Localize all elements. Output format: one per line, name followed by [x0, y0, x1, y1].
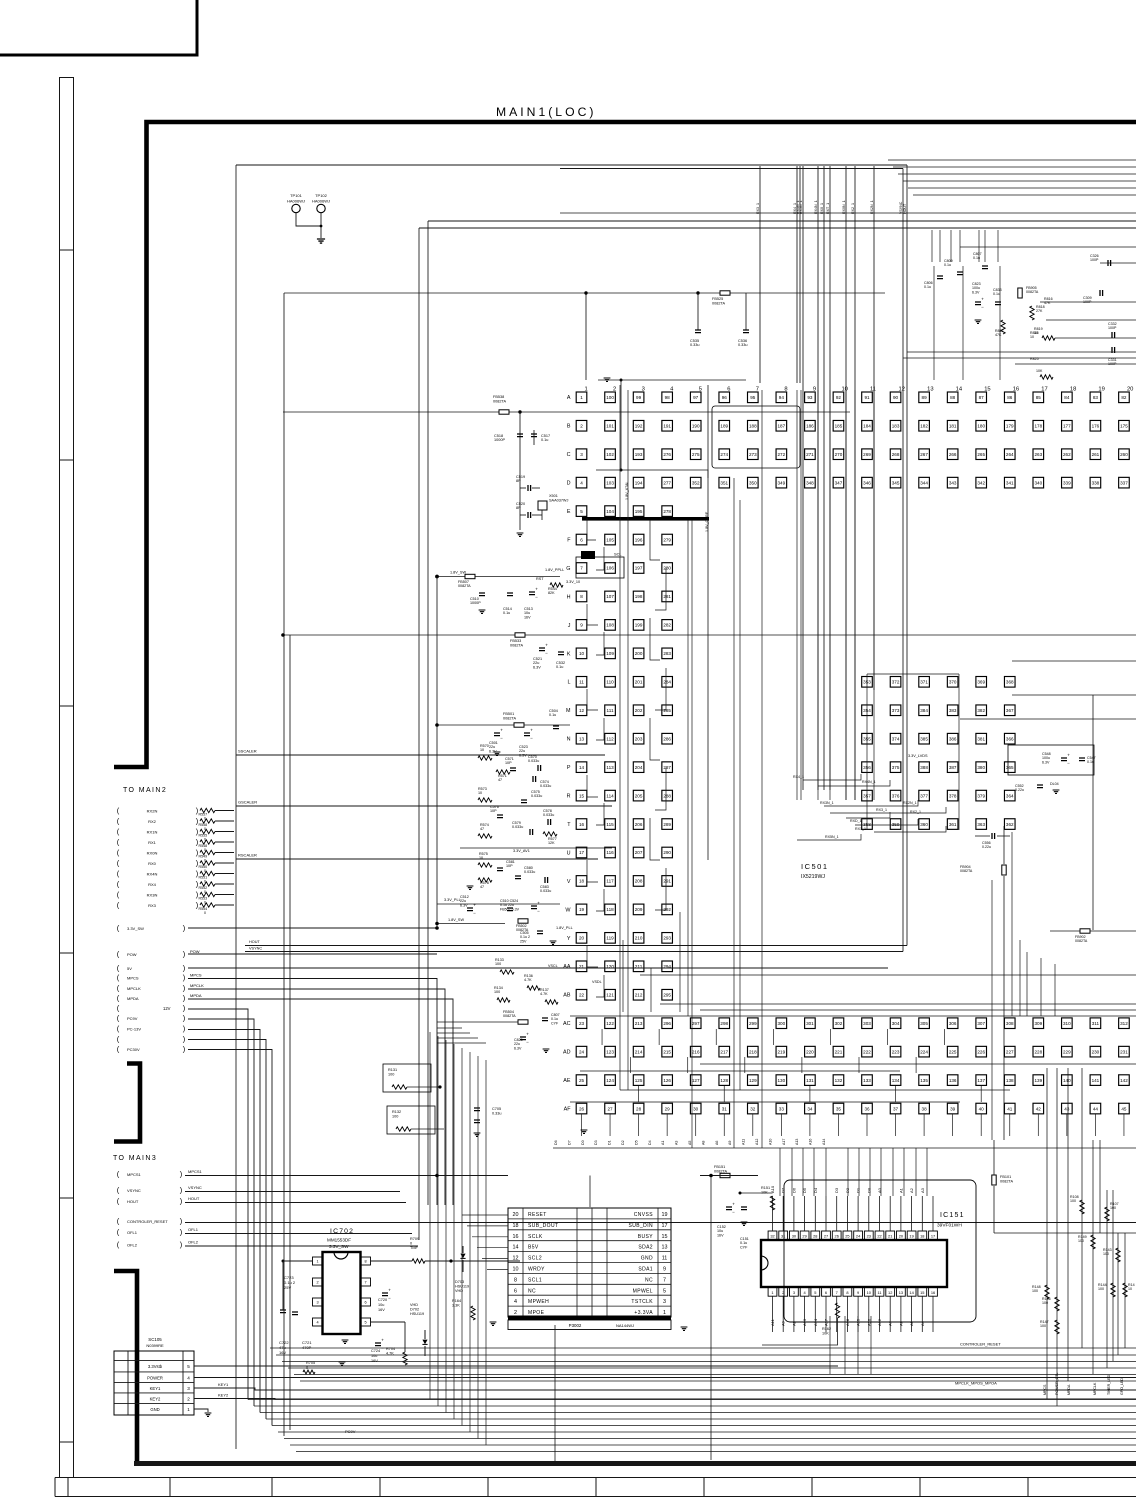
svg-text:RX4: RX4 — [148, 882, 157, 887]
pad B19 — [1090, 420, 1101, 431]
svg-text:0.1u: 0.1u — [993, 292, 1000, 296]
svg-text:NC: NC — [645, 1277, 653, 1283]
wire vertical net RX4_1 — [796, 166, 798, 383]
svg-text:22: 22 — [579, 992, 585, 997]
svg-text:0.033u: 0.033u — [528, 759, 539, 763]
wire — [740, 1192, 773, 1194]
svg-text:P: P — [567, 765, 571, 771]
svg-text:D3: D3 — [594, 1140, 598, 1145]
svg-text:−: − — [545, 651, 548, 656]
svg-text:470P: 470P — [302, 1345, 312, 1350]
wire — [903, 357, 1136, 359]
diode D703 HSU119 VHD — [460, 1254, 465, 1259]
bottom bus lines — [248, 1399, 1136, 1401]
pad AE16 — [1004, 1075, 1015, 1086]
ground — [1053, 790, 1060, 793]
svg-text:350: 350 — [749, 480, 757, 485]
pad L1 — [576, 677, 587, 688]
pad AC20 — [1119, 1018, 1130, 1029]
svg-text:303: 303 — [863, 1021, 871, 1026]
pad E4 — [662, 506, 673, 517]
IC151 pin 13 — [897, 1287, 906, 1296]
svg-text:214: 214 — [635, 1049, 643, 1054]
pad AE3 — [633, 1075, 644, 1086]
pad A10 — [833, 392, 844, 403]
svg-text:RSCALER: RSCALER — [238, 853, 257, 858]
svg-text:100P: 100P — [1108, 326, 1117, 330]
svg-text:5V: 5V — [127, 966, 132, 971]
wire IC151 bottom stub — [825, 1296, 827, 1332]
svg-text:177: 177 — [1063, 423, 1071, 428]
svg-text:D1: D1 — [608, 1140, 612, 1145]
svg-text:368: 368 — [1006, 680, 1014, 685]
wire — [1012, 660, 1136, 662]
wire bus under grid 2 — [620, 1089, 1010, 1091]
IC151 pin 30 — [790, 1231, 799, 1240]
svg-text:AB: AB — [563, 993, 571, 999]
ground — [741, 1222, 748, 1225]
svg-text:20: 20 — [513, 1212, 519, 1218]
pad D6 — [719, 477, 730, 488]
board outline MAIN1 thick frame — [114, 122, 1136, 767]
svg-text:RST: RST — [536, 577, 544, 581]
svg-text:1: 1 — [771, 1290, 773, 1295]
wire — [554, 1325, 556, 1463]
svg-text:R709: R709 — [410, 1237, 419, 1241]
svg-text:263: 263 — [1034, 452, 1042, 457]
svg-text:352: 352 — [692, 480, 700, 485]
wire 1.8V_SW — [437, 576, 560, 578]
svg-text:+: + — [535, 587, 538, 592]
svg-text:179: 179 — [1006, 423, 1014, 428]
svg-text:38: 38 — [922, 1106, 928, 1111]
wire SSCALER — [236, 754, 605, 756]
ferrite bead FB904 0082TA — [1002, 865, 1006, 875]
svg-text:7: 7 — [663, 1277, 666, 1283]
svg-text:13: 13 — [899, 1290, 903, 1295]
svg-text:RX2N: RX2N — [147, 809, 158, 814]
pad T2 — [605, 819, 616, 830]
wire — [215, 904, 234, 906]
pad D8 — [776, 477, 787, 488]
svg-text:33: 33 — [779, 1106, 785, 1111]
wire vertical x734 — [733, 478, 735, 1148]
svg-text:0082TA: 0082TA — [1000, 1179, 1013, 1183]
pad AC6 — [719, 1018, 730, 1029]
svg-text:212: 212 — [635, 992, 643, 997]
svg-text:88: 88 — [950, 395, 956, 400]
svg-text:311: 311 — [1092, 1021, 1100, 1026]
junction — [435, 922, 439, 926]
wire — [215, 894, 234, 896]
pad AE1 — [576, 1075, 587, 1086]
wire rails between AB and AC rows — [640, 974, 1136, 976]
svg-text:10: 10 — [513, 1267, 519, 1273]
svg-text:C: C — [567, 452, 571, 458]
svg-text:19: 19 — [662, 1212, 668, 1218]
svg-text:17: 17 — [931, 1234, 935, 1239]
svg-text:3: 3 — [793, 1290, 795, 1295]
capacitor C807 0.1u CYF — [542, 1018, 548, 1021]
pad L15 — [976, 677, 987, 688]
IC702 pin 7 — [361, 1278, 371, 1286]
wire loop pads B6-C7 — [712, 406, 800, 468]
svg-text:3.3V_AV1: 3.3V_AV1 — [513, 849, 530, 853]
pad AC12 — [890, 1018, 901, 1029]
wire vertical x620 — [619, 385, 621, 1090]
svg-text:337: 337 — [1120, 480, 1128, 485]
svg-text:194: 194 — [635, 480, 643, 485]
pad E3 — [633, 506, 644, 517]
svg-text:363: 363 — [977, 822, 985, 827]
wire — [975, 835, 990, 837]
pad AE5 — [690, 1075, 701, 1086]
pad C5 — [690, 449, 701, 460]
wire — [585, 293, 587, 380]
wire — [1092, 695, 1094, 930]
border tick — [60, 1441, 74, 1443]
IC151 pin 2 — [779, 1287, 788, 1296]
svg-text:185: 185 — [835, 423, 843, 428]
svg-text:A1: A1 — [898, 1187, 903, 1193]
pad W4 — [662, 904, 673, 915]
svg-text:119: 119 — [606, 936, 614, 941]
pad A12 — [890, 392, 901, 403]
svg-text:+: + — [500, 728, 503, 733]
ruler tick — [271, 1478, 273, 1497]
left vertical bus x428 — [427, 221, 429, 1205]
svg-text:5: 5 — [364, 1321, 366, 1325]
pad AF1 — [576, 1103, 587, 1114]
SC105 pin 4 POWER — [114, 1371, 194, 1373]
wire — [1015, 363, 1136, 365]
wire IC151 top stub — [889, 1196, 891, 1231]
capacitor C521 22u 6.3V — [539, 648, 545, 651]
svg-text:372: 372 — [892, 680, 900, 685]
svg-text:309: 309 — [1034, 1021, 1042, 1026]
svg-text:POWER: POWER — [147, 1375, 163, 1380]
svg-text:0082TA: 0082TA — [510, 643, 523, 647]
pad D4 — [662, 477, 673, 488]
IC151 pin 8 — [843, 1287, 852, 1296]
pad R11 — [862, 790, 873, 801]
svg-text:223: 223 — [892, 1049, 900, 1054]
resistor R544 82K — [550, 583, 563, 587]
svg-text:POW: POW — [127, 952, 137, 957]
junction — [518, 410, 521, 413]
ferrite bead FB905 0082TA — [1018, 288, 1022, 298]
svg-text:204: 204 — [635, 765, 643, 770]
pad M3 — [633, 705, 644, 716]
svg-text:A9: A9 — [781, 1320, 786, 1326]
pad J3 — [633, 620, 644, 631]
svg-text:D0: D0 — [581, 1140, 585, 1145]
svg-text:189: 189 — [720, 423, 728, 428]
svg-text:47: 47 — [480, 885, 484, 889]
wire — [655, 568, 666, 610]
border tick — [60, 705, 74, 707]
svg-text:RX0N_1: RX0N_1 — [842, 200, 846, 214]
svg-text:12V: 12V — [163, 1006, 171, 1011]
pad B15 — [976, 420, 987, 431]
wire IC151 top stub — [804, 1196, 806, 1231]
svg-text:10: 10 — [1030, 335, 1034, 339]
svg-text:296: 296 — [663, 1021, 671, 1026]
svg-text:44: 44 — [1093, 1106, 1099, 1111]
pad T1 — [576, 819, 587, 830]
border tick — [60, 952, 74, 954]
wire — [371, 1260, 413, 1262]
pad A16 — [1004, 392, 1015, 403]
svg-text:HOUT: HOUT — [188, 1196, 200, 1201]
svg-text:MPCS1: MPCS1 — [188, 1169, 203, 1174]
svg-text:186: 186 — [806, 423, 814, 428]
pad AE2 — [605, 1075, 616, 1086]
wire IC151 bottom stub — [846, 1296, 848, 1332]
svg-text:SUB_DIN: SUB_DIN — [629, 1223, 653, 1229]
pad V4 — [662, 876, 673, 887]
svg-text:96: 96 — [722, 395, 728, 400]
svg-text:42: 42 — [1036, 1106, 1042, 1111]
wire vertical net RX1N_1 — [799, 166, 801, 383]
wire — [745, 293, 747, 330]
wire IC151 bottom stub — [804, 1296, 806, 1332]
svg-text:47: 47 — [480, 827, 484, 831]
svg-text:5: 5 — [663, 1288, 666, 1294]
pad P1 — [576, 762, 587, 773]
svg-text:288: 288 — [663, 793, 671, 798]
pad AB3 — [633, 989, 644, 1000]
svg-text:206: 206 — [635, 822, 643, 827]
pad C13 — [919, 449, 930, 460]
wire IC151 top stub — [846, 1196, 848, 1231]
pad AC16 — [1004, 1018, 1015, 1029]
pad N14 — [947, 733, 958, 744]
svg-text:C705: C705 — [492, 1107, 501, 1111]
IC151 pin 20 — [897, 1231, 906, 1240]
svg-text:210: 210 — [635, 936, 643, 941]
svg-text:RX0N: RX0N — [147, 851, 158, 856]
svg-text:10P: 10P — [506, 864, 513, 868]
svg-text:386: 386 — [949, 736, 957, 741]
svg-text:100: 100 — [495, 962, 501, 966]
svg-text:100: 100 — [388, 1072, 394, 1076]
capacitor C501 22u 6.3V — [494, 733, 500, 736]
pad M1 — [576, 705, 587, 716]
svg-text:284: 284 — [663, 680, 671, 685]
pad G3 — [633, 563, 644, 574]
pad N2 — [605, 733, 616, 744]
svg-text:131: 131 — [806, 1078, 814, 1083]
svg-text:0082TA: 0082TA — [503, 716, 516, 720]
pad AE7 — [748, 1075, 759, 1086]
svg-text:10u: 10u — [378, 1303, 384, 1307]
IC151 pin 24 — [854, 1231, 863, 1240]
ground — [339, 1362, 346, 1365]
capacitor C724 10u 16V — [375, 1343, 381, 1346]
svg-text:17: 17 — [662, 1223, 668, 1229]
junction — [435, 1174, 439, 1178]
svg-text:CONTROLER_RESET: CONTROLER_RESET — [960, 1342, 1001, 1347]
pad A11 — [862, 392, 873, 403]
wire — [520, 487, 526, 489]
pad D16 — [1004, 477, 1015, 488]
svg-text:WRDY: WRDY — [528, 1267, 545, 1273]
svg-text:268: 268 — [892, 452, 900, 457]
wire — [437, 1021, 518, 1023]
wire — [596, 889, 604, 911]
svg-text:TP102: TP102 — [315, 193, 328, 198]
svg-text:100: 100 — [606, 395, 614, 400]
svg-text:200: 200 — [635, 651, 643, 656]
svg-text:IC151: IC151 — [940, 1212, 965, 1219]
pad J4 — [662, 620, 673, 631]
pad AF13 — [919, 1103, 930, 1114]
wire — [1040, 301, 1136, 303]
junction — [449, 1259, 452, 1262]
svg-text:TP101: TP101 — [290, 193, 303, 198]
svg-text:17: 17 — [579, 850, 585, 855]
pad H2 — [605, 591, 616, 602]
pad AF6 — [719, 1103, 730, 1114]
pad Y1 — [576, 933, 587, 944]
svg-text:23: 23 — [867, 1234, 871, 1239]
svg-text:0.33u: 0.33u — [738, 343, 748, 347]
svg-text:2: 2 — [580, 423, 583, 428]
svg-text:127: 127 — [692, 1078, 700, 1083]
wire horizontal y213 — [560, 212, 1136, 214]
svg-text:6.3V: 6.3V — [519, 753, 527, 757]
pad AF18 — [1062, 1103, 1073, 1114]
capacitor C512 22u 6.3V — [467, 908, 473, 911]
svg-text:TIMER_LED: TIMER_LED — [1107, 1374, 1111, 1395]
capacitor C510 1000P — [479, 593, 485, 596]
wire — [215, 862, 234, 864]
svg-text:41: 41 — [1007, 1106, 1013, 1111]
pad N15 — [976, 733, 987, 744]
svg-text:278: 278 — [663, 509, 671, 514]
svg-text:45: 45 — [1121, 1106, 1127, 1111]
wire OFL2 — [185, 1245, 418, 1247]
wire 3.3V_SW — [188, 927, 437, 929]
svg-text:10P: 10P — [505, 761, 512, 765]
pad D5 — [690, 477, 701, 488]
pad C12 — [890, 449, 901, 460]
resistor R145 100 — [1123, 1283, 1127, 1297]
svg-text:192: 192 — [635, 423, 643, 428]
svg-text:6.3V: 6.3V — [972, 290, 980, 294]
IC151 pin 10 — [864, 1287, 873, 1296]
wire — [404, 1322, 406, 1352]
wire vertical net RX3N_1 — [802, 166, 804, 790]
pad AD10 — [833, 1046, 844, 1057]
svg-text:10K: 10K — [1036, 369, 1043, 373]
svg-text:85: 85 — [1036, 395, 1042, 400]
pad C7 — [748, 449, 759, 460]
pad B4 — [662, 420, 673, 431]
svg-text:27: 27 — [824, 1234, 828, 1239]
left vertical bus x284 — [283, 293, 285, 1436]
pad AE14 — [947, 1075, 958, 1086]
pad AC9 — [805, 1018, 816, 1029]
wire IC151 top stub — [825, 1196, 827, 1231]
svg-text:G: G — [566, 566, 570, 572]
svg-text:+: + — [530, 728, 533, 733]
wire IC151 top stub — [932, 1196, 934, 1231]
svg-text:R: R — [567, 794, 571, 800]
svg-text:126: 126 — [663, 1078, 671, 1083]
pad C4 — [662, 449, 673, 460]
pad A17 — [1033, 392, 1044, 403]
wire — [620, 380, 622, 470]
svg-text:362: 362 — [1006, 822, 1014, 827]
pad K4 — [662, 648, 673, 659]
svg-text:291: 291 — [663, 879, 671, 884]
pad D7 — [748, 477, 759, 488]
IC151 pin 1 — [768, 1287, 777, 1296]
svg-text:198: 198 — [635, 594, 643, 599]
svg-text:U: U — [567, 850, 571, 856]
svg-text:0.033u: 0.033u — [524, 870, 535, 874]
svg-text:MPDA: MPDA — [127, 996, 139, 1001]
wire — [436, 577, 438, 929]
svg-text:47: 47 — [498, 778, 502, 782]
svg-text:TO MAIN2: TO MAIN2 — [123, 787, 167, 794]
junction — [320, 225, 323, 228]
svg-text:275: 275 — [692, 452, 700, 457]
pad AA2 — [605, 961, 616, 972]
svg-text:RX1: RX1 — [148, 840, 157, 845]
svg-text:112: 112 — [606, 736, 614, 741]
pad AF14 — [947, 1103, 958, 1114]
svg-text:KEY2: KEY2 — [150, 1396, 161, 1401]
ground — [581, 1130, 588, 1133]
capacitor C510b 0.1u — [507, 908, 513, 911]
svg-text:OFL2: OFL2 — [188, 1240, 199, 1245]
svg-text:343: 343 — [949, 480, 957, 485]
IC151 pin 17 — [929, 1231, 938, 1240]
capacitor C505 0.1u 25V — [537, 931, 543, 934]
svg-text:KEY2: KEY2 — [218, 1393, 229, 1398]
pad AC15 — [976, 1018, 987, 1029]
pad B5 — [690, 420, 701, 431]
svg-text:175: 175 — [1120, 423, 1128, 428]
pad L12 — [890, 677, 901, 688]
svg-text:6: 6 — [825, 1290, 827, 1295]
svg-text:D2: D2 — [845, 1187, 850, 1193]
svg-text:7: 7 — [364, 1281, 366, 1285]
wire — [215, 820, 234, 822]
wire vertical net RX2_1 — [854, 166, 856, 800]
wire — [650, 818, 660, 860]
svg-text:218: 218 — [749, 1049, 757, 1054]
pad R3 — [633, 790, 644, 801]
ecap C524 — [531, 906, 537, 909]
capacitor C536 0.33u — [743, 330, 749, 333]
wire — [655, 868, 666, 910]
svg-text:8: 8 — [364, 1260, 366, 1264]
wire — [762, 1318, 838, 1345]
svg-text:RX2N_1: RX2N_1 — [870, 200, 874, 214]
pad R13 — [919, 790, 930, 801]
pad AD17 — [1033, 1046, 1044, 1057]
wire rail3 — [282, 1361, 1136, 1363]
pad C8 — [776, 449, 787, 460]
pad AE11 — [862, 1075, 873, 1086]
wire — [587, 775, 598, 797]
ferrite bead FB538 0082TA — [499, 410, 509, 414]
svg-text:OFL1: OFL1 — [188, 1227, 199, 1232]
